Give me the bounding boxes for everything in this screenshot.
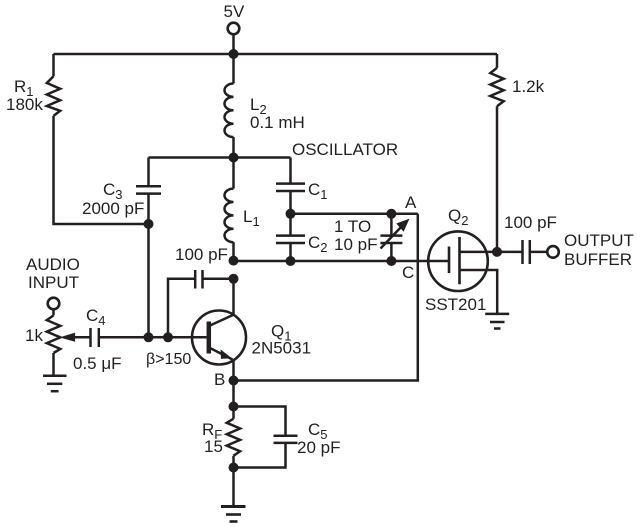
ground main [221, 505, 246, 508]
svg-text:100 pF: 100 pF [175, 245, 228, 264]
Q1 collector [210, 315, 234, 326]
wire pot to ground [52, 353, 55, 376]
wire C4 to Q1 base [99, 336, 207, 339]
inductor L2 [224, 84, 233, 138]
wire B down to RF [232, 381, 235, 407]
wire L1 to node [232, 242, 235, 260]
svg-text:C2: C2 [308, 233, 328, 255]
svg-text:INPUT: INPUT [28, 273, 79, 292]
svg-text:15: 15 [204, 437, 223, 456]
resistor R1 [47, 76, 60, 116]
Q2 drain wire [460, 251, 498, 254]
wire top rail [54, 53, 498, 56]
junction RF bottom [229, 463, 239, 473]
wire row y157 [149, 156, 291, 159]
svg-text:100 pF: 100 pF [504, 213, 557, 232]
svg-text:C1: C1 [308, 180, 328, 202]
Q2 source wire [460, 270, 498, 314]
junction C1-C2 [286, 209, 296, 219]
wire C3 node down [147, 224, 150, 337]
wire junction to L1 [232, 158, 235, 189]
junction L2 bottom [229, 153, 239, 163]
junction RF top [229, 402, 239, 412]
svg-text:B: B [214, 370, 225, 389]
wire rail to R1 [52, 54, 55, 76]
svg-text:2N5031: 2N5031 [252, 339, 312, 358]
transistor Q2 circle [428, 231, 488, 291]
wire R1 down and right to C3 node [54, 116, 149, 224]
svg-text:10 pF: 10 pF [334, 235, 377, 254]
capacitor C1 [289, 158, 292, 184]
junction C3 bottom [144, 219, 154, 229]
svg-text:20 pF: 20 pF [297, 438, 340, 457]
svg-text:1.2k: 1.2k [512, 77, 545, 96]
wiper arrow into pot [60, 333, 76, 342]
wire emitter to B [232, 360, 235, 381]
Q2 channel bar [458, 237, 461, 284]
node C [386, 256, 396, 266]
node A [386, 209, 396, 219]
Q1 emitter [210, 348, 233, 360]
wire 5V to rail [232, 34, 235, 54]
svg-text:SST201: SST201 [425, 295, 486, 314]
capacitor C5 branch [234, 407, 286, 436]
wire collector column [232, 279, 235, 316]
wire 1.2k to drain node [496, 106, 499, 252]
Q2 gate bar [448, 247, 451, 274]
svg-text:180k: 180k [6, 95, 43, 114]
variable cap arrow [381, 224, 405, 249]
resistor RF [227, 419, 240, 456]
capacitor C2 [289, 214, 292, 236]
node 5V terminal [228, 23, 240, 35]
svg-text:0.5 μF: 0.5 μF [73, 354, 122, 373]
junction L1 bottom [229, 256, 239, 266]
node audio input terminal [48, 298, 60, 310]
wire rail to 1.2k [496, 54, 499, 68]
svg-text:C: C [402, 263, 414, 282]
wire row y213 to A corner [291, 213, 418, 216]
ground audio [43, 375, 67, 378]
svg-text:C4: C4 [86, 306, 106, 328]
wire terminal to pot [52, 309, 55, 315]
inductor L1 [225, 189, 234, 243]
wire rail to L2 [232, 54, 235, 84]
svg-text:0.1 mH: 0.1 mH [250, 113, 305, 132]
transistor Q1 circle [192, 311, 246, 365]
variable capacitor 1-10pF [390, 214, 393, 236]
svg-text:5V: 5V [224, 2, 245, 21]
wire L2 to junction [232, 137, 235, 157]
junction at base row [163, 332, 173, 342]
svg-text:AUDIO: AUDIO [26, 255, 80, 274]
resistor 1.2k [490, 68, 503, 107]
potentiometer 1k [47, 315, 61, 353]
svg-text:OSCILLATOR: OSCILLATOR [292, 140, 398, 159]
svg-text:A: A [405, 193, 417, 212]
svg-text:Q2: Q2 [448, 206, 468, 228]
Q1 base bar [207, 322, 212, 354]
ground Q2 source [485, 313, 509, 316]
capacitor C3 [147, 158, 150, 187]
junction C2 bottom [286, 256, 296, 266]
junction drain [492, 247, 502, 257]
svg-text:L1: L1 [243, 207, 260, 229]
junction at rail [229, 49, 239, 59]
svg-text:1 TO: 1 TO [334, 217, 371, 236]
svg-text:BUFFER: BUFFER [564, 250, 632, 269]
svg-text:2000 pF: 2000 pF [82, 199, 144, 218]
wire feedback A down to B row [234, 214, 418, 381]
wire row y261 to Q2 gate [234, 260, 449, 263]
junction 100pF feedback node [229, 274, 239, 284]
svg-text:OUTPUT: OUTPUT [564, 231, 634, 250]
capacitor output 100pF [497, 251, 523, 254]
svg-text:β>150: β>150 [146, 351, 191, 368]
svg-text:1k: 1k [25, 326, 43, 345]
capacitor C4 [73, 336, 91, 339]
junction node B [229, 376, 239, 386]
capacitor 100pF feedback [203, 278, 234, 281]
node output terminal [547, 246, 559, 258]
wire to RF [232, 407, 235, 419]
